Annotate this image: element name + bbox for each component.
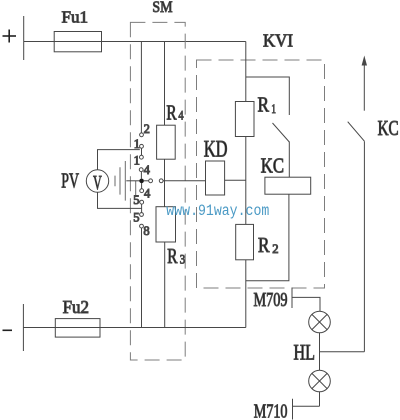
svg-text:R: R bbox=[258, 92, 270, 116]
wire : top rail down to R1 bbox=[245, 42, 247, 102]
wire : M709 to lamp 1 bbox=[292, 297, 320, 311]
wire : R4 bottom to R3 top bbox=[164, 159, 166, 207]
svg-text:2: 2 bbox=[144, 122, 150, 136]
node contact 5 upper bbox=[140, 200, 144, 204]
wire : wiper to center junction bbox=[126, 180, 139, 182]
contact KC (right branch) bbox=[348, 122, 365, 142]
wire : contact to KD bbox=[163, 180, 205, 182]
svg-text:KD: KD bbox=[204, 136, 228, 161]
svg-text:M710: M710 bbox=[254, 400, 288, 420]
wire : PV bottom to contact 5 bbox=[98, 192, 142, 208]
terminal M709 tick bbox=[291, 288, 293, 309]
wire : KC contact down to HL junction bbox=[363, 141, 365, 352]
switch SM wiper bars bbox=[115, 161, 136, 201]
svg-text:KC: KC bbox=[261, 155, 284, 177]
wire : link contacts 1-1 bbox=[141, 148, 143, 155]
wire : top rail down to R4 bbox=[164, 42, 166, 126]
svg-text:4: 4 bbox=[144, 187, 151, 201]
node contact 1 lower bbox=[140, 155, 144, 159]
wire : negative terminal tick bbox=[22, 304, 24, 351]
resistor R3 bbox=[156, 207, 176, 242]
wire : dot to right contact bbox=[144, 180, 149, 182]
svg-text:Fu2: Fu2 bbox=[63, 297, 89, 317]
svg-text:R: R bbox=[258, 233, 270, 257]
svg-text:1: 1 bbox=[271, 101, 276, 116]
relay KD coil bbox=[206, 161, 225, 195]
node contact 5 lower bbox=[140, 213, 144, 217]
node contact 1 upper bbox=[140, 144, 144, 148]
terminal M710 tick bbox=[292, 399, 294, 420]
wire : bottom rail bbox=[23, 327, 245, 329]
lamp HL1 bbox=[309, 311, 331, 333]
svg-text:3: 3 bbox=[180, 251, 185, 266]
node contact 8 bbox=[140, 224, 144, 228]
node : wiper junction dot bbox=[139, 179, 144, 184]
wire : KD to R1-R2 column bbox=[225, 179, 246, 181]
svg-text:KVI: KVI bbox=[263, 31, 293, 51]
wire : contact 8 to bottom rail bbox=[141, 228, 143, 328]
fuse Fu2 bbox=[55, 319, 100, 338]
svg-text:1: 1 bbox=[134, 137, 140, 151]
svg-text:HL: HL bbox=[294, 340, 316, 365]
wire : R3 bottom to bottom rail bbox=[164, 242, 166, 328]
node - (negative terminal) bbox=[3, 329, 13, 331]
svg-text:R: R bbox=[167, 244, 178, 268]
wire : R1 bottom to R2 top bbox=[245, 137, 247, 225]
wire : lamp2 down bbox=[319, 392, 321, 407]
svg-text:2: 2 bbox=[272, 241, 278, 256]
wire : branch to KC contact bbox=[246, 77, 289, 115]
wire : blade to KC coil bbox=[288, 142, 290, 178]
svg-text:1: 1 bbox=[134, 154, 140, 168]
wire : lamp1 to lamp2 bbox=[319, 333, 321, 370]
fuse Fu1 bbox=[54, 32, 101, 52]
svg-text:www.91way.com: www.91way.com bbox=[166, 202, 269, 220]
wire : link contacts 5-5 bbox=[141, 204, 143, 212]
lamp HL2 bbox=[309, 370, 331, 392]
wire : HL junction to KC branch bbox=[320, 351, 365, 353]
wire : PV top to contact 1 bbox=[98, 150, 140, 170]
svg-text:SM: SM bbox=[152, 0, 172, 16]
svg-text:5: 5 bbox=[133, 193, 139, 207]
node + (positive terminal) bbox=[3, 30, 17, 43]
wire : dot to contact 4 lower bbox=[141, 183, 143, 189]
node contact 2 bbox=[140, 133, 144, 137]
wire : top rail down to contact 2 bbox=[140, 42, 142, 134]
wire : M710 wire bbox=[293, 405, 320, 407]
SM dashed enclosure bbox=[130, 22, 185, 360]
wire : KC coil bottom to R2 column bbox=[246, 194, 289, 281]
contact KVI blade bbox=[273, 123, 290, 142]
wire : positive terminal tick bbox=[23, 16, 25, 60]
KVI dashed enclosure bbox=[197, 60, 325, 288]
svg-text:PV: PV bbox=[61, 169, 79, 193]
svg-text:4: 4 bbox=[144, 163, 151, 177]
resistor R2 bbox=[236, 224, 254, 259]
wire : top rail bbox=[24, 41, 246, 43]
wire : contact 4 to dot bbox=[140, 172, 142, 179]
svg-text:V: V bbox=[93, 173, 102, 194]
node : right contact b bbox=[159, 179, 163, 183]
node contact 4 lower bbox=[140, 189, 144, 193]
resistor R4 bbox=[157, 125, 176, 159]
svg-text:R: R bbox=[166, 101, 177, 125]
svg-text:8: 8 bbox=[143, 224, 149, 238]
svg-text:5: 5 bbox=[133, 211, 139, 225]
node contact 4 upper bbox=[139, 168, 143, 172]
svg-text:M709: M709 bbox=[254, 289, 288, 311]
svg-text:4: 4 bbox=[178, 108, 184, 123]
svg-text:Fu1: Fu1 bbox=[62, 7, 89, 26]
node : arrow to positive (top right) bbox=[362, 56, 367, 111]
resistor R1 bbox=[235, 102, 254, 137]
node : right contact a bbox=[149, 179, 153, 183]
wire : R2 bottom to bottom rail bbox=[245, 260, 247, 328]
relay KC coil bbox=[265, 177, 311, 194]
svg-text:KC: KC bbox=[378, 118, 399, 140]
